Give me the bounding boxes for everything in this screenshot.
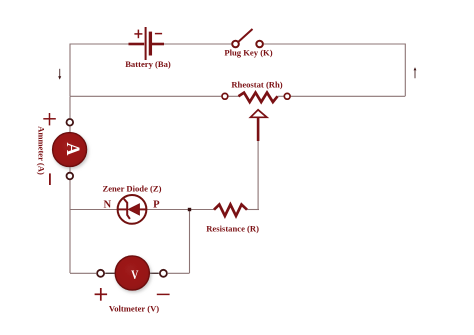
svg-text:P: P bbox=[153, 199, 160, 210]
svg-text:Zener Diode (Z): Zener Diode (Z) bbox=[102, 183, 161, 193]
svg-text:Plug Key (K): Plug Key (K) bbox=[224, 48, 272, 58]
svg-text:Ammeter (A): Ammeter (A) bbox=[37, 126, 47, 175]
svg-text:A: A bbox=[62, 143, 83, 156]
svg-text:Battery (Ba): Battery (Ba) bbox=[125, 59, 171, 69]
svg-text:Resistance (R): Resistance (R) bbox=[206, 224, 259, 234]
svg-text:V: V bbox=[131, 268, 138, 282]
svg-text:Rheostat (Rh): Rheostat (Rh) bbox=[231, 80, 282, 90]
svg-text:Voltmeter (V): Voltmeter (V) bbox=[109, 304, 159, 314]
svg-text:N: N bbox=[103, 199, 111, 210]
